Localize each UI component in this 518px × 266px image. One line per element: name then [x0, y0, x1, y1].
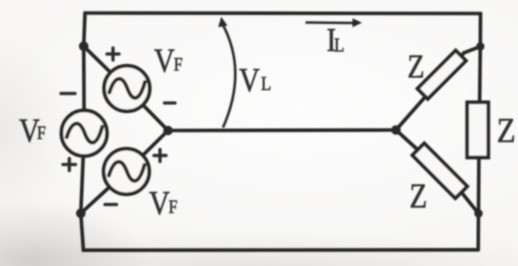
label VL (line voltage) [239, 61, 271, 99]
node M (junction dot, load star point) [391, 125, 401, 135]
wire right upper (top-right corner down to node T) [478, 14, 482, 47]
wire diagonal node A to source V1 to node N [84, 46, 127, 88]
label VF of source VF1 [154, 41, 183, 79]
wire diagonal node N to source V3 to node B [126, 131, 168, 172]
plus sign of source VF1 [107, 48, 119, 60]
svg-text:Z: Z [497, 112, 516, 150]
source VF1 (top AC source circle) [104, 66, 150, 112]
svg-text:V: V [154, 41, 175, 79]
svg-text:F: F [37, 123, 46, 143]
source VF3 (bottom AC source circle) [104, 149, 150, 195]
label Z of impedance Z2 [497, 112, 516, 150]
wire middle (node N to node M) [168, 128, 396, 132]
source VF2 (left AC source circle) [61, 110, 107, 156]
node T (junction dot, right top) [476, 42, 484, 50]
wire left lower (bottom-left corner up to node B) [81, 213, 84, 250]
label Z of impedance Z3 [410, 177, 428, 215]
wire diagonal node M to impedance Z1 to node T [396, 53, 464, 130]
wire right bottom (node Bot to bottom-right corner) [476, 214, 480, 250]
svg-text:Z: Z [410, 177, 428, 215]
node Bot (junction dot, right bottom) [474, 209, 482, 217]
minus sign of source VF3 [105, 203, 117, 206]
node A (junction dot, left top) [79, 41, 89, 51]
wire top (node A line to node T line) [85, 11, 481, 15]
minus sign of source VF1 [165, 101, 176, 104]
impedance Z2 (vertical rectangle, right side) [467, 102, 488, 157]
svg-text:V: V [149, 184, 170, 222]
svg-text:F: F [169, 197, 178, 217]
impedance Z3 (lower diagonal rectangle) [412, 143, 467, 198]
label Z of impedance Z1 [407, 47, 424, 85]
svg-text:V: V [239, 61, 260, 99]
label IL (line current) [327, 21, 345, 59]
arrow IL (line current arrow) [306, 21, 354, 24]
wire right lower (impedance Z2 to node Bot) [477, 156, 481, 214]
wire right (node T down to impedance Z2) [478, 47, 482, 105]
node B (junction dot, left bottom) [76, 209, 86, 219]
node N (junction dot, source star point) [163, 126, 173, 136]
svg-text:F: F [174, 54, 183, 74]
wire left upper (source V2 up to node A and top-left corner) [82, 46, 86, 133]
minus sign of source VF2 [61, 92, 75, 95]
svg-text:L: L [334, 34, 344, 55]
plus sign of source VF2 [63, 159, 76, 171]
wire bottom [83, 248, 478, 252]
svg-text:Z: Z [407, 47, 424, 85]
label VF of source VF3 [149, 184, 178, 222]
wire left middle (node B up through source V2) [81, 133, 84, 213]
plus sign of source VF3 [154, 150, 166, 162]
wire diagonal node M to impedance Z3 to node Bot [396, 130, 418, 150]
impedance Z1 (upper diagonal rectangle) [417, 50, 465, 98]
label VF of source VF2 [19, 111, 46, 149]
svg-text:L: L [261, 73, 271, 94]
arrow VL (curved line-voltage arrow) [222, 24, 235, 128]
